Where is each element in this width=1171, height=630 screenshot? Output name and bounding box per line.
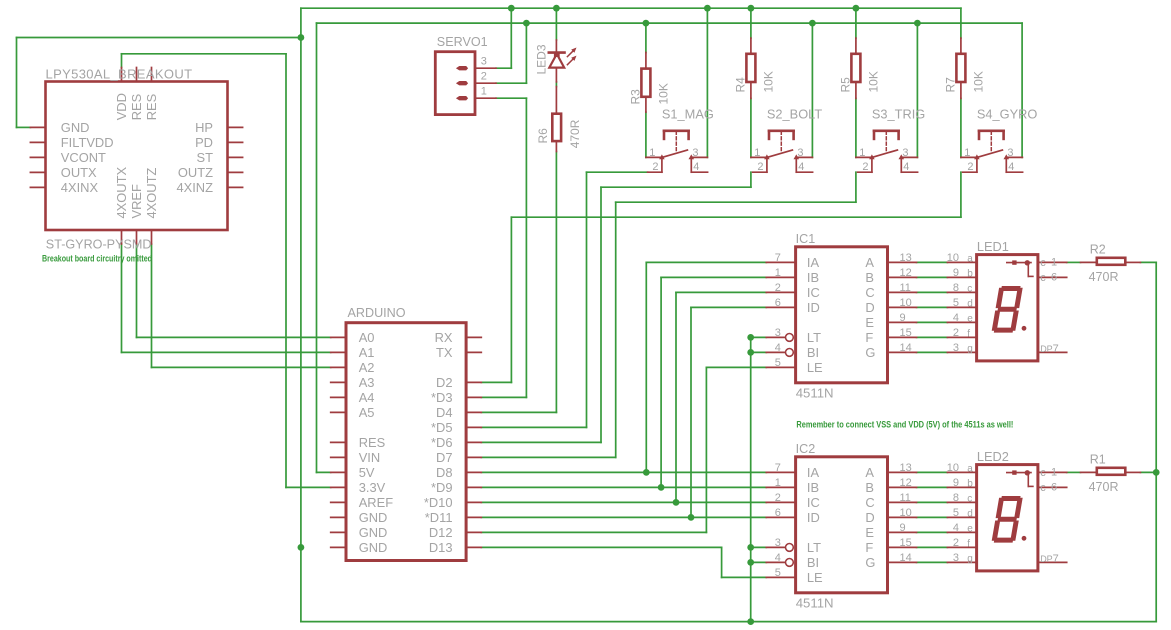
svg-text:R7: R7 (943, 77, 957, 93)
svg-text:3: 3 (775, 327, 781, 339)
svg-text:A: A (865, 255, 874, 270)
svg-text:B: B (865, 480, 874, 495)
svg-text:3: 3 (797, 147, 803, 159)
svg-text:1: 1 (859, 147, 865, 159)
svg-text:PD: PD (195, 135, 213, 150)
svg-text:14: 14 (900, 342, 912, 354)
svg-text:4: 4 (1008, 161, 1014, 173)
svg-text:10: 10 (947, 462, 959, 474)
svg-text:GND: GND (359, 510, 388, 525)
svg-text:3: 3 (1007, 147, 1013, 159)
svg-text:GND: GND (359, 540, 388, 555)
svg-text:15: 15 (900, 537, 912, 549)
svg-text:c: c (967, 284, 972, 295)
svg-text:GND: GND (359, 525, 388, 540)
svg-text:10K: 10K (971, 71, 985, 92)
svg-text:1: 1 (649, 147, 655, 159)
svg-text:f: f (967, 539, 970, 550)
svg-text:7: 7 (1053, 343, 1059, 355)
svg-text:C: C (865, 495, 874, 510)
svg-text:5: 5 (953, 507, 959, 519)
svg-text:1: 1 (1051, 256, 1057, 268)
svg-text:4XOUTZ: 4XOUTZ (144, 168, 159, 219)
svg-text:5: 5 (775, 567, 781, 579)
svg-text:2: 2 (967, 161, 973, 173)
svg-text:RX: RX (435, 330, 453, 345)
svg-text:c: c (967, 494, 972, 505)
svg-text:IC1: IC1 (796, 232, 816, 246)
svg-text:1: 1 (964, 147, 970, 159)
svg-text:A0: A0 (359, 330, 375, 345)
svg-text:VREF: VREF (129, 184, 144, 219)
svg-text:LPY530AL_BREAKOUT: LPY530AL_BREAKOUT (46, 67, 193, 82)
svg-text:13: 13 (900, 462, 912, 474)
svg-text:S1_MAG: S1_MAG (662, 106, 714, 121)
svg-text:13: 13 (900, 252, 912, 264)
svg-text:B: B (865, 270, 874, 285)
svg-text:4: 4 (798, 161, 804, 173)
svg-text:D: D (865, 510, 874, 525)
svg-text:b: b (967, 479, 973, 490)
svg-text:D: D (865, 300, 874, 315)
svg-text:3: 3 (902, 147, 908, 159)
svg-text:*D6: *D6 (431, 435, 453, 450)
svg-text:4: 4 (775, 342, 781, 354)
svg-text:4511N: 4511N (796, 385, 834, 400)
svg-text:D4: D4 (436, 405, 452, 420)
svg-text:c: c (1040, 467, 1046, 479)
svg-text:IA: IA (807, 255, 820, 270)
svg-text:470R: 470R (568, 119, 582, 148)
svg-text:10: 10 (900, 507, 912, 519)
svg-text:D12: D12 (429, 525, 453, 540)
svg-text:TX: TX (436, 345, 453, 360)
svg-text:LT: LT (807, 540, 821, 555)
svg-text:12: 12 (900, 267, 912, 279)
svg-text:G: G (865, 555, 875, 570)
svg-text:4: 4 (953, 522, 959, 534)
svg-text:R5: R5 (838, 77, 852, 93)
svg-text:IC2: IC2 (796, 442, 816, 456)
svg-text:14: 14 (900, 552, 912, 564)
svg-text:1: 1 (481, 86, 487, 98)
svg-text:470R: 470R (1089, 480, 1119, 494)
svg-text:5: 5 (775, 357, 781, 369)
svg-text:6: 6 (1051, 481, 1057, 493)
svg-text:C: C (865, 285, 874, 300)
svg-text:2: 2 (481, 71, 487, 83)
svg-text:a: a (967, 254, 973, 265)
svg-text:D2: D2 (436, 375, 452, 390)
svg-text:*D10: *D10 (424, 495, 453, 510)
svg-text:Breakout board circuitry omitt: Breakout board circuitry omitted (42, 254, 152, 264)
svg-text:4XOUTX: 4XOUTX (114, 167, 129, 219)
svg-text:2: 2 (757, 161, 763, 173)
svg-text:LE: LE (807, 360, 823, 375)
svg-text:5V: 5V (359, 465, 375, 480)
svg-text:IA: IA (807, 465, 820, 480)
svg-text:2: 2 (862, 161, 868, 173)
svg-text:3: 3 (481, 56, 487, 68)
svg-text:BI: BI (807, 345, 819, 360)
svg-text:d: d (967, 509, 973, 520)
svg-text:FILTVDD: FILTVDD (61, 135, 114, 150)
svg-text:9: 9 (953, 477, 959, 489)
svg-text:470R: 470R (1089, 270, 1119, 284)
svg-text:LED2: LED2 (977, 449, 1009, 464)
svg-text:RES: RES (129, 94, 144, 121)
svg-text:D13: D13 (429, 540, 453, 555)
svg-text:DP: DP (1040, 344, 1053, 354)
svg-text:A5: A5 (359, 405, 375, 420)
svg-text:e: e (967, 314, 973, 325)
svg-text:RES: RES (144, 94, 159, 121)
svg-text:D8: D8 (436, 465, 452, 480)
svg-text:g: g (967, 554, 973, 565)
svg-text:IC: IC (807, 495, 820, 510)
svg-text:3: 3 (692, 147, 698, 159)
svg-text:A4: A4 (359, 390, 375, 405)
svg-text:F: F (865, 330, 873, 345)
svg-text:f: f (967, 329, 970, 340)
svg-text:10K: 10K (866, 71, 880, 92)
svg-text:VIN: VIN (359, 450, 381, 465)
svg-text:d: d (967, 299, 973, 310)
svg-text:3: 3 (953, 342, 959, 354)
svg-text:E: E (865, 525, 874, 540)
svg-text:c: c (1040, 272, 1046, 284)
svg-text:2: 2 (953, 327, 959, 339)
svg-text:b: b (967, 269, 973, 280)
svg-text:6: 6 (1051, 271, 1057, 283)
svg-text:DP: DP (1040, 554, 1053, 564)
svg-text:8: 8 (953, 492, 959, 504)
svg-text:ST: ST (197, 150, 214, 165)
svg-text:IB: IB (807, 480, 819, 495)
svg-text:D7: D7 (436, 450, 452, 465)
svg-text:7: 7 (775, 462, 781, 474)
svg-text:*D9: *D9 (431, 480, 453, 495)
svg-text:9: 9 (900, 522, 906, 534)
svg-text:IC: IC (807, 285, 820, 300)
svg-text:*D3: *D3 (431, 390, 453, 405)
svg-text:4: 4 (953, 312, 959, 324)
svg-text:LED1: LED1 (977, 239, 1009, 254)
svg-text:R2: R2 (1090, 243, 1106, 257)
svg-text:IB: IB (807, 270, 819, 285)
svg-text:1: 1 (775, 267, 781, 279)
svg-text:c: c (1040, 257, 1046, 269)
svg-text:10: 10 (947, 252, 959, 264)
svg-text:1: 1 (754, 147, 760, 159)
svg-text:ARDUINO: ARDUINO (348, 306, 406, 320)
svg-text:R4: R4 (733, 77, 747, 93)
svg-text:A3: A3 (359, 375, 375, 390)
svg-text:12: 12 (900, 477, 912, 489)
svg-text:HP: HP (195, 120, 213, 135)
svg-text:2: 2 (775, 282, 781, 294)
svg-text:9: 9 (953, 267, 959, 279)
svg-text:g: g (967, 344, 973, 355)
svg-text:8: 8 (953, 282, 959, 294)
svg-text:e: e (967, 524, 973, 535)
svg-text:11: 11 (900, 282, 911, 294)
svg-text:OUTX: OUTX (61, 165, 97, 180)
svg-text:2: 2 (953, 537, 959, 549)
svg-text:VDD: VDD (114, 93, 129, 120)
svg-text:ID: ID (807, 300, 820, 315)
svg-text:a: a (967, 464, 973, 475)
svg-text:4: 4 (775, 552, 781, 564)
svg-text:A1: A1 (359, 345, 375, 360)
svg-text:4: 4 (693, 161, 699, 173)
svg-text:S4_GYRO: S4_GYRO (977, 106, 1038, 121)
svg-text:7: 7 (775, 252, 781, 264)
svg-text:4XINX: 4XINX (61, 180, 99, 195)
svg-text:LE: LE (807, 570, 823, 585)
svg-text:6: 6 (775, 507, 781, 519)
svg-text:3: 3 (775, 537, 781, 549)
svg-text:OUTZ: OUTZ (178, 165, 213, 180)
svg-text:*D5: *D5 (431, 420, 453, 435)
svg-text:GND: GND (61, 120, 90, 135)
svg-text:ID: ID (807, 510, 820, 525)
svg-text:AREF: AREF (359, 495, 394, 510)
svg-text:E: E (865, 315, 874, 330)
svg-text:1: 1 (775, 477, 781, 489)
svg-text:4XINZ: 4XINZ (176, 180, 213, 195)
svg-text:2: 2 (775, 492, 781, 504)
svg-text:A2: A2 (359, 360, 375, 375)
svg-text:10K: 10K (761, 71, 775, 92)
svg-text:11: 11 (900, 492, 911, 504)
svg-text:4: 4 (903, 161, 909, 173)
svg-text:RES: RES (359, 435, 386, 450)
svg-text:R6: R6 (536, 128, 550, 144)
svg-text:2: 2 (652, 161, 658, 173)
svg-text:9: 9 (900, 312, 906, 324)
svg-text:G: G (865, 345, 875, 360)
svg-text:VCONT: VCONT (61, 150, 106, 165)
svg-text:3: 3 (953, 552, 959, 564)
svg-text:R1: R1 (1090, 453, 1106, 467)
svg-text:c: c (1040, 482, 1046, 494)
svg-text:*D11: *D11 (425, 510, 453, 525)
svg-text:R3: R3 (628, 89, 642, 105)
svg-text:S2_BOLT: S2_BOLT (767, 106, 822, 121)
svg-text:10: 10 (900, 297, 912, 309)
svg-text:ST-GYRO-PYSMD: ST-GYRO-PYSMD (46, 238, 152, 252)
svg-text:SERVO1: SERVO1 (437, 35, 488, 49)
svg-text:BI: BI (807, 555, 819, 570)
svg-text:7: 7 (1053, 553, 1059, 565)
svg-text:10K: 10K (656, 83, 670, 104)
svg-text:Remember to connect VSS and VD: Remember to connect VSS and VDD (5V) of … (796, 419, 1013, 429)
svg-text:LT: LT (807, 330, 821, 345)
svg-text:F: F (865, 540, 873, 555)
svg-text:S3_TRIG: S3_TRIG (872, 106, 925, 121)
svg-text:1: 1 (1051, 466, 1057, 478)
svg-text:5: 5 (953, 297, 959, 309)
svg-text:6: 6 (775, 297, 781, 309)
svg-text:4511N: 4511N (796, 595, 834, 610)
svg-text:A: A (865, 465, 874, 480)
svg-text:15: 15 (900, 327, 912, 339)
svg-text:3.3V: 3.3V (359, 480, 386, 495)
svg-text:LED3: LED3 (535, 44, 549, 74)
